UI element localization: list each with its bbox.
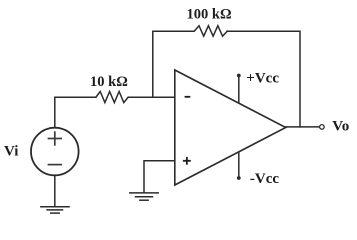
svg-text:Vo: Vo [332,119,349,135]
svg-text:10 kΩ: 10 kΩ [90,74,128,90]
svg-text:Vi: Vi [4,144,18,160]
svg-text:100 kΩ: 100 kΩ [187,7,232,23]
svg-text:-Vcc: -Vcc [250,171,279,187]
svg-text:+Vcc: +Vcc [246,70,279,86]
